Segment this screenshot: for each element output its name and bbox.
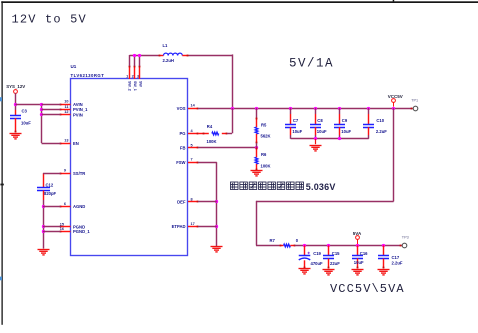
svg-text:TP3: TP3: [402, 236, 409, 240]
svg-text:100K: 100K: [207, 139, 217, 144]
node FB junction: [255, 146, 258, 149]
wire bus to PVIN: [42, 114, 61, 116]
inductor L1: [159, 55, 164, 57]
svg-text:C3: C3: [22, 109, 28, 114]
svg-text:TLV62130RGT: TLV62130RGT: [71, 73, 105, 78]
ground below C19: [299, 268, 311, 270]
wire SS/TR to C12: [43, 173, 61, 175]
node bus AVIN: [40, 103, 43, 106]
pin lead PVIN: [61, 114, 71, 116]
test point TP1: [411, 108, 413, 110]
pin lead PG: [188, 133, 198, 135]
svg-text:5.036V: 5.036V: [306, 182, 336, 192]
svg-text:DEF: DEF: [177, 200, 186, 205]
svg-text:R4: R4: [207, 124, 213, 129]
svg-text:SW_1: SW_1: [133, 81, 137, 91]
pin lead FSW: [188, 162, 198, 164]
svg-text:C9: C9: [342, 118, 348, 123]
capacitor C19 470uF polarized: [304, 245, 306, 255]
capacitor C10: [368, 108, 370, 114]
wire bus to PVIN_1: [42, 109, 61, 111]
svg-text:R6: R6: [261, 152, 267, 157]
svg-text:2: 2: [132, 74, 134, 78]
node PGND_1 junction: [42, 230, 45, 233]
pin lead SW_1: [134, 66, 136, 79]
svg-text:SYS_12V: SYS_12V: [6, 84, 25, 89]
svg-text:562K: 562K: [261, 134, 271, 139]
capacitor C9: [339, 108, 341, 114]
svg-text:L1: L1: [163, 43, 169, 48]
svg-text:SW: SW: [138, 81, 142, 87]
svg-text:PG: PG: [179, 131, 185, 136]
svg-text:10: 10: [64, 100, 68, 104]
wire input to bus: [15, 104, 41, 106]
pin lead VOS: [188, 108, 198, 110]
node rail C7: [289, 107, 292, 110]
node input junction: [14, 103, 17, 106]
svg-text:10uF: 10uF: [354, 260, 364, 265]
svg-text:470uF: 470uF: [311, 261, 324, 266]
pin lead SS/TR: [61, 173, 71, 175]
wire bus to AVIN: [42, 104, 61, 106]
wire SW drop: [139, 55, 141, 66]
wire L1 to output corner: [189, 55, 233, 57]
resistor R5 562K: [256, 108, 258, 117]
node bus PVIN_1: [40, 108, 43, 111]
resistor R6 100K: [256, 148, 258, 158]
wire C12 down chain: [43, 200, 45, 249]
svg-text:2.2uH: 2.2uH: [163, 58, 174, 63]
svg-text:C12: C12: [46, 182, 54, 187]
IC U1 TLV62130RGT: [71, 79, 188, 256]
capacitor C12: [43, 173, 45, 187]
capacitor C15 22uF: [328, 245, 330, 255]
svg-text:SS/TR: SS/TR: [73, 171, 85, 176]
svg-text:5V/1A: 5V/1A: [289, 56, 334, 70]
svg-text:PVIN: PVIN: [73, 112, 83, 117]
svg-text:VOS: VOS: [177, 106, 186, 111]
ground output caps: [315, 139, 317, 144]
capacitor C17 2.2uF: [383, 245, 385, 255]
wire VOS rail: [198, 108, 413, 110]
wire SW_1 drop: [134, 55, 136, 66]
wire SW_2 drop: [129, 55, 131, 66]
node 5VA C19: [303, 244, 306, 247]
svg-text:9: 9: [64, 169, 66, 173]
svg-text:C8: C8: [317, 118, 323, 123]
node rail C10: [367, 107, 370, 110]
wire FB: [198, 147, 256, 149]
power flag VCC5V: [392, 99, 396, 103]
svg-text:11: 11: [64, 105, 68, 109]
wire bus to EN: [42, 143, 61, 145]
svg-text:13: 13: [64, 139, 68, 143]
svg-text:C16: C16: [360, 251, 368, 256]
pin lead AGND: [61, 206, 71, 208]
svg-text:VCC5V: VCC5V: [388, 94, 403, 99]
capacitor C8: [315, 108, 317, 114]
node ETPAD junction: [215, 225, 218, 228]
wire DEF: [198, 201, 217, 203]
ground below R6: [251, 170, 263, 172]
wire bus vertical: [41, 104, 43, 143]
power flag 5VA: [356, 236, 360, 240]
svg-text:7: 7: [191, 158, 193, 162]
node rail R5: [255, 107, 258, 110]
ground below C17: [378, 269, 390, 271]
pin lead EN: [61, 143, 71, 145]
node 5VA flag: [356, 244, 359, 247]
svg-text:17: 17: [191, 222, 195, 226]
node 5VA C17: [382, 244, 385, 247]
wire R4 up to rail: [232, 108, 234, 133]
svg-text:PVIN_1: PVIN_1: [73, 107, 88, 112]
pin lead DEF: [188, 201, 198, 203]
pin lead PVIN_1: [61, 109, 71, 111]
svg-text:C17: C17: [392, 255, 400, 260]
capacitor C7: [290, 108, 292, 114]
node DEF junction: [215, 200, 218, 203]
wire ETPAD: [198, 226, 217, 228]
svg-text:2.2uF: 2.2uF: [376, 129, 387, 134]
svg-text:6: 6: [64, 202, 66, 206]
node PGND junction: [42, 225, 45, 228]
resistor R4 100K: [198, 133, 209, 135]
svg-text:C10: C10: [376, 118, 384, 123]
node rail C9: [338, 107, 341, 110]
wire FSW down: [216, 162, 218, 246]
svg-text:FSW: FSW: [176, 160, 185, 165]
svg-text:8: 8: [191, 197, 193, 201]
svg-text:22uF: 22uF: [330, 261, 340, 266]
pin lead SW: [139, 66, 141, 79]
svg-text:10uF: 10uF: [317, 129, 327, 134]
node bus PVIN: [40, 113, 43, 116]
node AGND junction: [42, 205, 45, 208]
wire FSW: [198, 162, 217, 164]
ground below C3: [10, 133, 22, 135]
svg-text:5VA: 5VA: [353, 231, 362, 236]
ground below FSW chain: [211, 246, 223, 248]
svg-text:12: 12: [64, 110, 68, 114]
pin lead SW_2: [129, 66, 131, 79]
node SW_1 junction: [133, 54, 136, 57]
svg-text:VCC5V\5VA: VCC5V\5VA: [330, 282, 405, 296]
svg-text:R7: R7: [270, 238, 276, 243]
node 5VA C15: [327, 244, 330, 247]
pin lead FB: [188, 147, 198, 149]
svg-text:10uF: 10uF: [341, 129, 351, 134]
node bottom rail C9: [338, 137, 341, 140]
resistor R7 0: [256, 245, 280, 247]
note text resistor network output: [231, 182, 239, 190]
svg-text:R5: R5: [261, 123, 267, 128]
svg-text:5: 5: [191, 143, 193, 147]
node rail C8: [314, 107, 317, 110]
node rail R4: [231, 107, 234, 110]
svg-text:1: 1: [126, 74, 128, 78]
svg-text:AVIN: AVIN: [73, 102, 83, 107]
capacitor C16 10uF: [357, 245, 359, 255]
wire VCC5V down: [393, 108, 395, 201]
svg-text:100K: 100K: [261, 163, 271, 168]
svg-text:C7: C7: [293, 118, 299, 123]
pin lead AVIN: [61, 104, 71, 106]
svg-text:U1: U1: [71, 64, 77, 69]
svg-text:16: 16: [60, 227, 64, 231]
wire across to left: [256, 201, 394, 203]
wire output cap bottom rail: [291, 138, 369, 140]
pin lead PGND: [61, 226, 71, 228]
node rail VCC5V: [392, 107, 395, 110]
wire AGND: [43, 206, 61, 208]
wire PGND_1: [43, 231, 61, 233]
wire corner down to VOS rail: [232, 54, 234, 108]
node SW junction: [138, 54, 141, 57]
svg-text:2.2uF: 2.2uF: [392, 260, 403, 265]
svg-text:TP1: TP1: [411, 98, 418, 102]
svg-text:10uF: 10uF: [292, 129, 302, 134]
svg-text:ETPAD: ETPAD: [172, 224, 186, 229]
svg-text:C19: C19: [313, 251, 321, 256]
wire 5VA rail: [295, 245, 402, 247]
ground below C12 chain: [38, 249, 50, 251]
svg-text:AGND: AGND: [73, 204, 85, 209]
wire PGND: [43, 226, 61, 228]
svg-text:FB: FB: [180, 146, 186, 151]
wire down to R7: [256, 201, 258, 246]
test point TP3: [400, 245, 402, 247]
wire SW top horizontal: [130, 55, 159, 57]
capacitor C3: [15, 110, 17, 115]
svg-text:EN: EN: [73, 141, 79, 146]
svg-text:12V to 5V: 12V to 5V: [12, 12, 87, 26]
pin lead PGND_1: [61, 231, 71, 233]
svg-text:SW_2: SW_2: [128, 81, 132, 91]
svg-text:PGND_1: PGND_1: [73, 229, 90, 234]
ground below C16: [352, 269, 364, 271]
wire SYS_12V down: [15, 93, 17, 110]
svg-text:C15: C15: [332, 251, 340, 256]
svg-text:10uF: 10uF: [21, 120, 31, 125]
node bottom rail C8: [314, 137, 317, 140]
pin lead ETPAD: [188, 226, 198, 228]
svg-text:820pF: 820pF: [44, 191, 57, 196]
ground below C15: [323, 269, 335, 271]
